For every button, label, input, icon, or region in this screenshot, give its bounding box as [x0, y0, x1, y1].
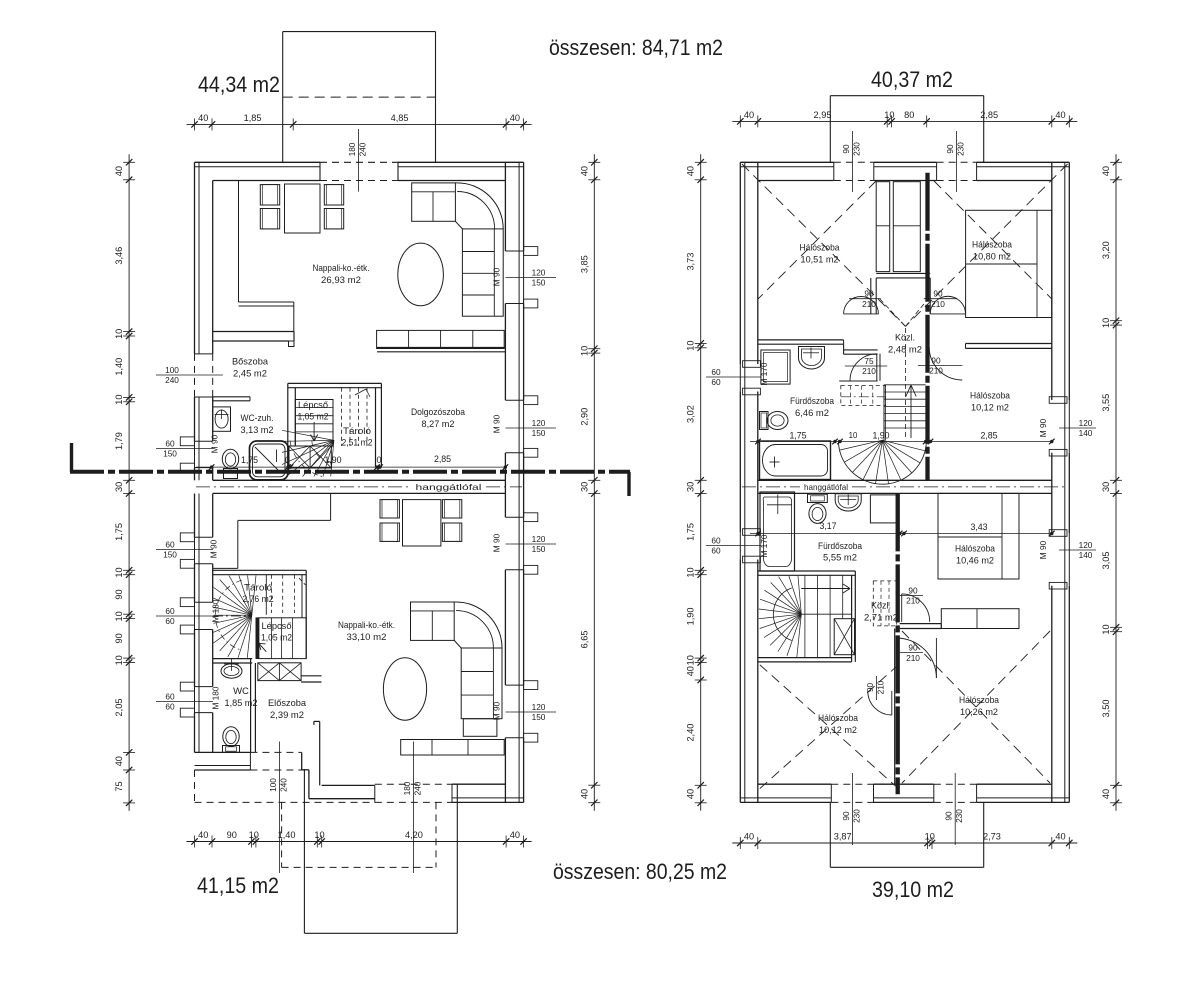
right wall right plan with 2 windows	[1068, 162, 1070, 400]
washbasin lower bath right plan	[835, 494, 861, 511]
stair down arrow upper	[313, 422, 315, 441]
left wall right plan with 2 windows	[739, 162, 741, 364]
upper extension / garage outline	[283, 31, 436, 33]
svg-text:Közl.: Közl.	[895, 333, 915, 344]
svg-text:10: 10	[1101, 624, 1111, 634]
svg-text:40: 40	[198, 113, 208, 123]
svg-text:140: 140	[1079, 550, 1093, 560]
svg-text:2,45 m2: 2,45 m2	[233, 369, 267, 380]
svg-text:60: 60	[165, 606, 175, 616]
svg-text:240: 240	[165, 375, 179, 385]
svg-text:1,90: 1,90	[324, 455, 341, 465]
svg-text:6,46 m2: 6,46 m2	[795, 408, 829, 419]
svg-text:10,12 m2: 10,12 m2	[819, 725, 857, 736]
window markers 90/230 bottom wall	[851, 773, 853, 845]
svg-text:120: 120	[532, 702, 546, 712]
svg-text:90: 90	[841, 144, 851, 154]
window markers 60/60 left wall right plan	[706, 376, 761, 378]
left dimension column left plan	[128, 154, 130, 811]
svg-text:240: 240	[412, 781, 422, 795]
svg-text:40: 40	[686, 789, 696, 799]
svg-text:230: 230	[851, 809, 861, 823]
svg-text:150: 150	[532, 278, 546, 288]
washbasin lower WC	[221, 664, 242, 678]
window marker 120/150 right u1	[506, 277, 557, 279]
svg-text:M 180: M 180	[211, 686, 221, 709]
window markers 90/230 top wall	[852, 131, 854, 192]
svg-text:90: 90	[931, 355, 941, 365]
svg-text:Nappali-ko.-étk.: Nappali-ko.-étk.	[313, 263, 370, 274]
X diagonals lower unit right plan	[760, 665, 899, 789]
svg-text:30: 30	[686, 482, 696, 492]
svg-text:44,34 m2: 44,34 m2	[198, 72, 280, 97]
washer square lower bath	[870, 495, 898, 523]
svg-text:240: 240	[278, 778, 288, 792]
corridor side walls	[870, 278, 872, 314]
svg-text:120: 120	[1079, 540, 1093, 550]
stair flight box lower unit	[256, 618, 259, 659]
svg-text:150: 150	[532, 428, 546, 438]
svg-text:2,85: 2,85	[980, 431, 997, 441]
bottom dimension line right plan	[732, 842, 1077, 844]
svg-text:10: 10	[686, 567, 696, 577]
window marker 120/150 right l4	[506, 711, 557, 713]
wall X-box to eloszoba	[301, 675, 321, 677]
svg-text:Tároló: Tároló	[343, 426, 371, 436]
door marker 180/240 top wall	[358, 129, 360, 192]
svg-text:10: 10	[249, 830, 259, 840]
svg-text:2,51 m2: 2,51 m2	[342, 438, 373, 448]
corridor top wall	[876, 272, 930, 274]
toilet lower bath right plan	[808, 494, 828, 502]
svg-text:180: 180	[347, 142, 357, 156]
party wall right plan	[758, 479, 1052, 481]
svg-text:240: 240	[358, 142, 368, 156]
svg-text:100: 100	[268, 778, 278, 792]
svg-text:10: 10	[114, 611, 124, 621]
svg-text:4,20: 4,20	[405, 830, 423, 840]
svg-text:1,85: 1,85	[244, 113, 262, 123]
svg-text:10,26 m2: 10,26 m2	[960, 707, 998, 718]
svg-text:210: 210	[876, 680, 886, 694]
svg-text:150: 150	[163, 550, 177, 560]
svg-text:2,05: 2,05	[114, 699, 124, 717]
oval table upper unit	[398, 243, 444, 306]
door 90/210 bedroom 10,12 upper	[929, 347, 962, 380]
svg-text:1,75: 1,75	[114, 523, 124, 541]
svg-text:2,48 m2: 2,48 m2	[888, 345, 922, 356]
balcony bottom right plan	[829, 802, 831, 867]
svg-text:M 170: M 170	[759, 362, 769, 385]
svg-text:2,76 m2: 2,76 m2	[243, 594, 274, 604]
svg-text:10: 10	[114, 329, 124, 339]
toilet upper WC	[222, 449, 238, 469]
kitchen counter upper unit	[238, 181, 240, 303]
party wall between units (left plan)	[213, 479, 506, 481]
interior dim row upper unit	[196, 466, 505, 468]
svg-text:60: 60	[711, 546, 721, 556]
svg-text:2,90: 2,90	[579, 408, 589, 426]
winder fan upper unit	[331, 440, 334, 476]
corridor V + dashed centerline	[880, 299, 906, 326]
svg-text:150: 150	[163, 449, 177, 459]
svg-text:90: 90	[114, 633, 124, 643]
lower dashed terrace outline	[281, 802, 283, 867]
svg-text:40: 40	[579, 789, 589, 799]
svg-text:3,05: 3,05	[1101, 551, 1111, 569]
svg-text:10: 10	[925, 832, 935, 842]
svg-text:WC-zuh.: WC-zuh.	[241, 413, 274, 424]
toilet upper bath	[767, 412, 788, 430]
svg-text:10: 10	[1101, 318, 1111, 328]
winder fan upper unit right plan	[882, 440, 925, 451]
window marker 60/150 upper left	[156, 448, 213, 450]
top wall right plan with 2 windows	[740, 161, 834, 163]
svg-text:1,05 m2: 1,05 m2	[298, 412, 329, 422]
bathtub lower right plan	[760, 492, 795, 571]
kitchen counter lower unit	[330, 493, 332, 520]
WC room walls lower unit	[213, 658, 253, 660]
svg-text:WC: WC	[233, 686, 249, 697]
svg-text:90: 90	[841, 811, 851, 821]
svg-text:80: 80	[904, 110, 914, 120]
svg-text:100: 100	[165, 365, 179, 375]
svg-text:180: 180	[402, 781, 412, 795]
svg-text:60: 60	[165, 702, 175, 712]
stair arrow lower unit	[259, 643, 267, 652]
svg-text:3,13 m2: 3,13 m2	[241, 425, 274, 436]
svg-text:Hálószoba: Hálószoba	[959, 695, 1000, 706]
window marker 60/60 taro	[156, 615, 213, 617]
roof hip diagonals upper unit right plan	[742, 164, 906, 326]
bedroom 10,80 bottom wall	[966, 343, 1052, 345]
svg-text:40: 40	[579, 166, 589, 176]
svg-text:3,20: 3,20	[1101, 241, 1111, 259]
svg-text:3,87: 3,87	[834, 832, 852, 842]
svg-text:90: 90	[944, 811, 954, 821]
svg-text:M 90: M 90	[210, 434, 220, 453]
svg-text:Közl.: Közl.	[871, 601, 891, 612]
svg-text:40: 40	[510, 113, 520, 123]
svg-text:hanggátlófal: hanggátlófal	[804, 483, 848, 492]
svg-text:M 90: M 90	[492, 267, 502, 286]
hanggatlofal centerline right	[742, 486, 800, 488]
svg-text:120: 120	[532, 267, 546, 277]
svg-text:3,73: 3,73	[686, 253, 696, 271]
understair storage X upper	[289, 446, 331, 468]
svg-text:Előszoba: Előszoba	[268, 698, 307, 709]
svg-text:2,40: 2,40	[686, 724, 696, 742]
svg-text:40: 40	[1055, 832, 1065, 842]
treads lower stairs right plan	[804, 575, 806, 657]
svg-text:60: 60	[711, 535, 721, 545]
svg-text:40: 40	[686, 166, 696, 176]
svg-text:40: 40	[1101, 789, 1111, 799]
washbasin upper WC	[213, 407, 231, 431]
svg-text:60: 60	[165, 438, 175, 448]
svg-text:1,75: 1,75	[789, 431, 806, 441]
taro dashed upper flight	[341, 388, 343, 446]
svg-text:10: 10	[686, 340, 696, 350]
svg-text:Hálószoba: Hálószoba	[970, 391, 1011, 402]
svg-text:60: 60	[165, 539, 175, 549]
understair storage X lower	[258, 663, 301, 681]
svg-text:4,85: 4,85	[391, 113, 409, 123]
sideboard upper unit	[377, 330, 505, 348]
closet cells top of corridor	[876, 182, 890, 272]
svg-text:10: 10	[114, 655, 124, 665]
svg-text:39,10 m2: 39,10 m2	[872, 877, 954, 902]
svg-text:90: 90	[227, 830, 237, 840]
svg-text:Fürdőszoba: Fürdőszoba	[790, 396, 835, 407]
svg-text:10,12 m2: 10,12 m2	[971, 403, 1009, 414]
stair straight flight upper unit	[295, 400, 333, 447]
svg-text:1,05 m2: 1,05 m2	[261, 633, 292, 643]
svg-text:3,02: 3,02	[686, 405, 696, 423]
svg-text:Hálószoba: Hálószoba	[972, 240, 1013, 251]
svg-text:210: 210	[906, 653, 920, 663]
window marker 120/150 right u2	[506, 427, 557, 429]
door marker 100/240 bottom wall	[278, 742, 280, 874]
svg-text:hanggátlófal: hanggátlófal	[416, 483, 482, 492]
svg-text:10,80 m2: 10,80 m2	[973, 252, 1011, 263]
interior dim row upper unit right plan	[750, 441, 1052, 443]
stairs lower unit right plan	[797, 614, 802, 657]
svg-text:2,85: 2,85	[434, 454, 451, 464]
furdoszoba upper walls	[844, 349, 878, 351]
svg-text:30: 30	[579, 482, 589, 492]
bedroom 10,51 bottom wall	[758, 339, 844, 341]
svg-text:összesen: 84,71 m2: összesen: 84,71 m2	[549, 35, 723, 60]
svg-text:8,27 m2: 8,27 m2	[422, 419, 455, 430]
dashed flight over corridor lower right plan	[873, 581, 896, 626]
svg-text:120: 120	[532, 534, 546, 544]
wall hall/WC upper unit	[213, 396, 250, 398]
svg-text:Bőszoba: Bőszoba	[232, 357, 269, 368]
svg-text:40: 40	[114, 166, 124, 176]
svg-text:41,15 m2: 41,15 m2	[197, 873, 279, 898]
svg-text:összesen: 80,25 m2: összesen: 80,25 m2	[553, 859, 727, 884]
svg-text:10: 10	[884, 110, 894, 120]
svg-text:Tároló: Tároló	[244, 583, 272, 593]
svg-text:3,85: 3,85	[579, 255, 589, 273]
window marker 60/60 WC	[156, 701, 213, 703]
svg-text:120: 120	[1079, 418, 1093, 428]
top dimension line right plan	[732, 120, 1077, 122]
oval table lower unit	[383, 658, 426, 720]
svg-text:3,43: 3,43	[970, 522, 987, 532]
left wall lower unit: 3 windows	[194, 494, 196, 538]
svg-text:Fürdőszoba: Fürdőszoba	[818, 541, 863, 552]
svg-text:40: 40	[1055, 110, 1065, 120]
svg-text:90: 90	[114, 589, 124, 599]
door 90/210 to 10,12 rotated	[876, 676, 878, 700]
stair treads corridor upper unit	[883, 385, 885, 440]
svg-text:40: 40	[744, 110, 754, 120]
right dimension column left plan	[593, 154, 595, 810]
stair enclosure upper unit	[288, 382, 382, 384]
svg-text:10: 10	[579, 346, 589, 356]
svg-text:75: 75	[114, 781, 124, 791]
dining set lower unit	[403, 500, 441, 546]
washbasin upper bath	[799, 347, 825, 370]
svg-text:3,17: 3,17	[819, 521, 836, 531]
upper flight dashed (lower unit)	[265, 575, 267, 615]
svg-text:75: 75	[864, 356, 874, 366]
svg-text:1,75: 1,75	[686, 523, 696, 541]
svg-text:60: 60	[165, 616, 175, 626]
svg-text:140: 140	[1079, 428, 1093, 438]
svg-text:33,10 m2: 33,10 m2	[347, 632, 387, 643]
svg-text:2,71 m2: 2,71 m2	[864, 613, 898, 624]
svg-text:10,46 m2: 10,46 m2	[956, 556, 994, 567]
svg-text:1,40: 1,40	[278, 830, 296, 840]
svg-text:40: 40	[686, 666, 696, 676]
svg-text:150: 150	[532, 712, 546, 722]
wall between lower bedrooms	[894, 629, 896, 785]
bottom dimension line left plan	[187, 841, 532, 843]
svg-text:210: 210	[929, 366, 943, 376]
svg-text:M 180: M 180	[211, 599, 221, 622]
svg-text:1,90: 1,90	[872, 431, 889, 441]
svg-text:0: 0	[285, 455, 290, 465]
svg-text:210: 210	[862, 366, 876, 376]
wall km 10,46 bottom	[900, 623, 942, 625]
svg-text:26,93 m2: 26,93 m2	[321, 275, 361, 286]
svg-text:M 90: M 90	[492, 701, 502, 720]
window marker 60/150 lower left	[156, 549, 213, 551]
svg-text:0: 0	[377, 455, 382, 465]
bathroom door 75/210 upper	[876, 354, 878, 381]
svg-text:Lépcső: Lépcső	[262, 621, 292, 631]
svg-text:2,95: 2,95	[814, 110, 832, 120]
svg-text:2,85: 2,85	[980, 110, 998, 120]
svg-text:Lépcső: Lépcső	[298, 400, 328, 410]
svg-text:10: 10	[686, 655, 696, 665]
svg-text:30: 30	[1101, 482, 1111, 492]
svg-text:60: 60	[711, 367, 721, 377]
svg-text:90: 90	[945, 144, 955, 154]
dining set upper unit	[285, 184, 321, 233]
sideboard lower unit	[401, 740, 505, 756]
svg-text:40: 40	[114, 756, 124, 766]
hanggátlófal centerline	[196, 486, 411, 488]
taro room top wall lower unit	[213, 569, 307, 571]
svg-text:120: 120	[532, 418, 546, 428]
shower cabin	[250, 441, 289, 480]
svg-text:5,55 m2: 5,55 m2	[823, 553, 857, 564]
svg-text:2,73: 2,73	[983, 832, 1001, 842]
svg-text:60: 60	[711, 377, 721, 387]
window markers 120/140 right wall right plan	[1059, 427, 1096, 429]
section line upper (thick) right plan	[925, 173, 929, 481]
svg-text:Hálószoba: Hálószoba	[818, 713, 859, 724]
upper flight dashed box right plan	[841, 386, 886, 406]
svg-text:210: 210	[931, 299, 945, 309]
svg-text:Dolgozószoba: Dolgozószoba	[411, 407, 466, 418]
right wall with 4 windows	[523, 162, 525, 251]
interior dim row lower unit right plan	[750, 533, 1052, 535]
svg-text:40: 40	[510, 830, 520, 840]
svg-text:60: 60	[165, 691, 175, 701]
svg-text:M 90: M 90	[492, 414, 502, 433]
svg-text:40: 40	[198, 830, 208, 840]
svg-text:90: 90	[908, 585, 918, 595]
svg-text:2,39 m2: 2,39 m2	[270, 710, 304, 721]
door marker 100/240 upper left	[156, 374, 223, 376]
corner sofa lower unit	[411, 602, 455, 640]
svg-text:Nappali-ko.-étk.: Nappali-ko.-étk.	[338, 620, 395, 631]
balcony top right plan	[830, 95, 983, 97]
svg-text:10,51 m2: 10,51 m2	[801, 255, 839, 266]
svg-text:10: 10	[314, 830, 324, 840]
svg-text:6,65: 6,65	[579, 630, 589, 648]
X box lower stairs right plan	[834, 619, 854, 655]
svg-text:210: 210	[862, 299, 876, 309]
svg-text:1,40: 1,40	[114, 358, 124, 376]
svg-text:3,50: 3,50	[1101, 700, 1111, 718]
svg-text:30: 30	[114, 482, 124, 492]
svg-text:1,75: 1,75	[241, 455, 258, 465]
svg-text:1,90: 1,90	[686, 607, 696, 625]
bathtub upper bath	[760, 441, 831, 480]
bottom wall right plan with 2 windows	[740, 801, 831, 803]
svg-text:10: 10	[849, 431, 858, 440]
door 90/210 to 10,26	[900, 652, 923, 654]
wall top of dolgozoszoba	[377, 347, 505, 349]
door marker 180/240 bottom wall	[412, 742, 414, 874]
svg-text:M 90: M 90	[1038, 418, 1048, 437]
svg-text:40,37 m2: 40,37 m2	[871, 67, 953, 92]
left dimension column right plan	[700, 154, 702, 811]
svg-text:M 90: M 90	[209, 539, 219, 558]
svg-text:150: 150	[532, 544, 546, 554]
svg-text:90: 90	[908, 642, 918, 652]
svg-text:1,85 m2: 1,85 m2	[225, 698, 258, 709]
toilet lower WC	[223, 727, 239, 747]
ottoman lower sofa	[463, 719, 497, 737]
door 90/210 bedroom 10,51	[844, 313, 879, 315]
svg-text:3,55: 3,55	[1101, 394, 1111, 412]
svg-text:230: 230	[954, 809, 964, 823]
right dimension column right plan	[1115, 154, 1117, 811]
svg-text:Hálószoba: Hálószoba	[800, 243, 841, 254]
svg-text:40: 40	[1101, 166, 1111, 176]
top wall with terrace-door opening	[195, 161, 321, 163]
lower solid garage outline	[303, 769, 305, 933]
window marker 120/150 right l3	[506, 543, 557, 545]
winder fan lower unit	[247, 615, 252, 658]
svg-text:Hálószoba: Hálószoba	[955, 544, 996, 555]
svg-text:40: 40	[744, 832, 754, 842]
bottom wall: porch + terrace door	[452, 801, 524, 803]
svg-text:230: 230	[852, 142, 862, 156]
stair up arrow	[910, 385, 912, 438]
svg-text:10: 10	[114, 567, 124, 577]
shower upper bath right plan	[761, 350, 790, 384]
door 90/210 bedroom 10,80	[930, 313, 965, 315]
corner sofa upper unit	[412, 183, 456, 221]
svg-text:M 90: M 90	[1038, 540, 1048, 559]
svg-text:M 90: M 90	[492, 533, 502, 552]
svg-text:1,79: 1,79	[114, 432, 124, 450]
stair arrow lower right plan	[801, 588, 850, 590]
eloszoba right wall	[319, 721, 321, 785]
svg-text:3,46: 3,46	[114, 247, 124, 265]
section line lower (thick) right plan	[896, 493, 900, 794]
svg-text:230: 230	[956, 142, 966, 156]
left wall upper unit: entry door + window	[194, 162, 196, 354]
